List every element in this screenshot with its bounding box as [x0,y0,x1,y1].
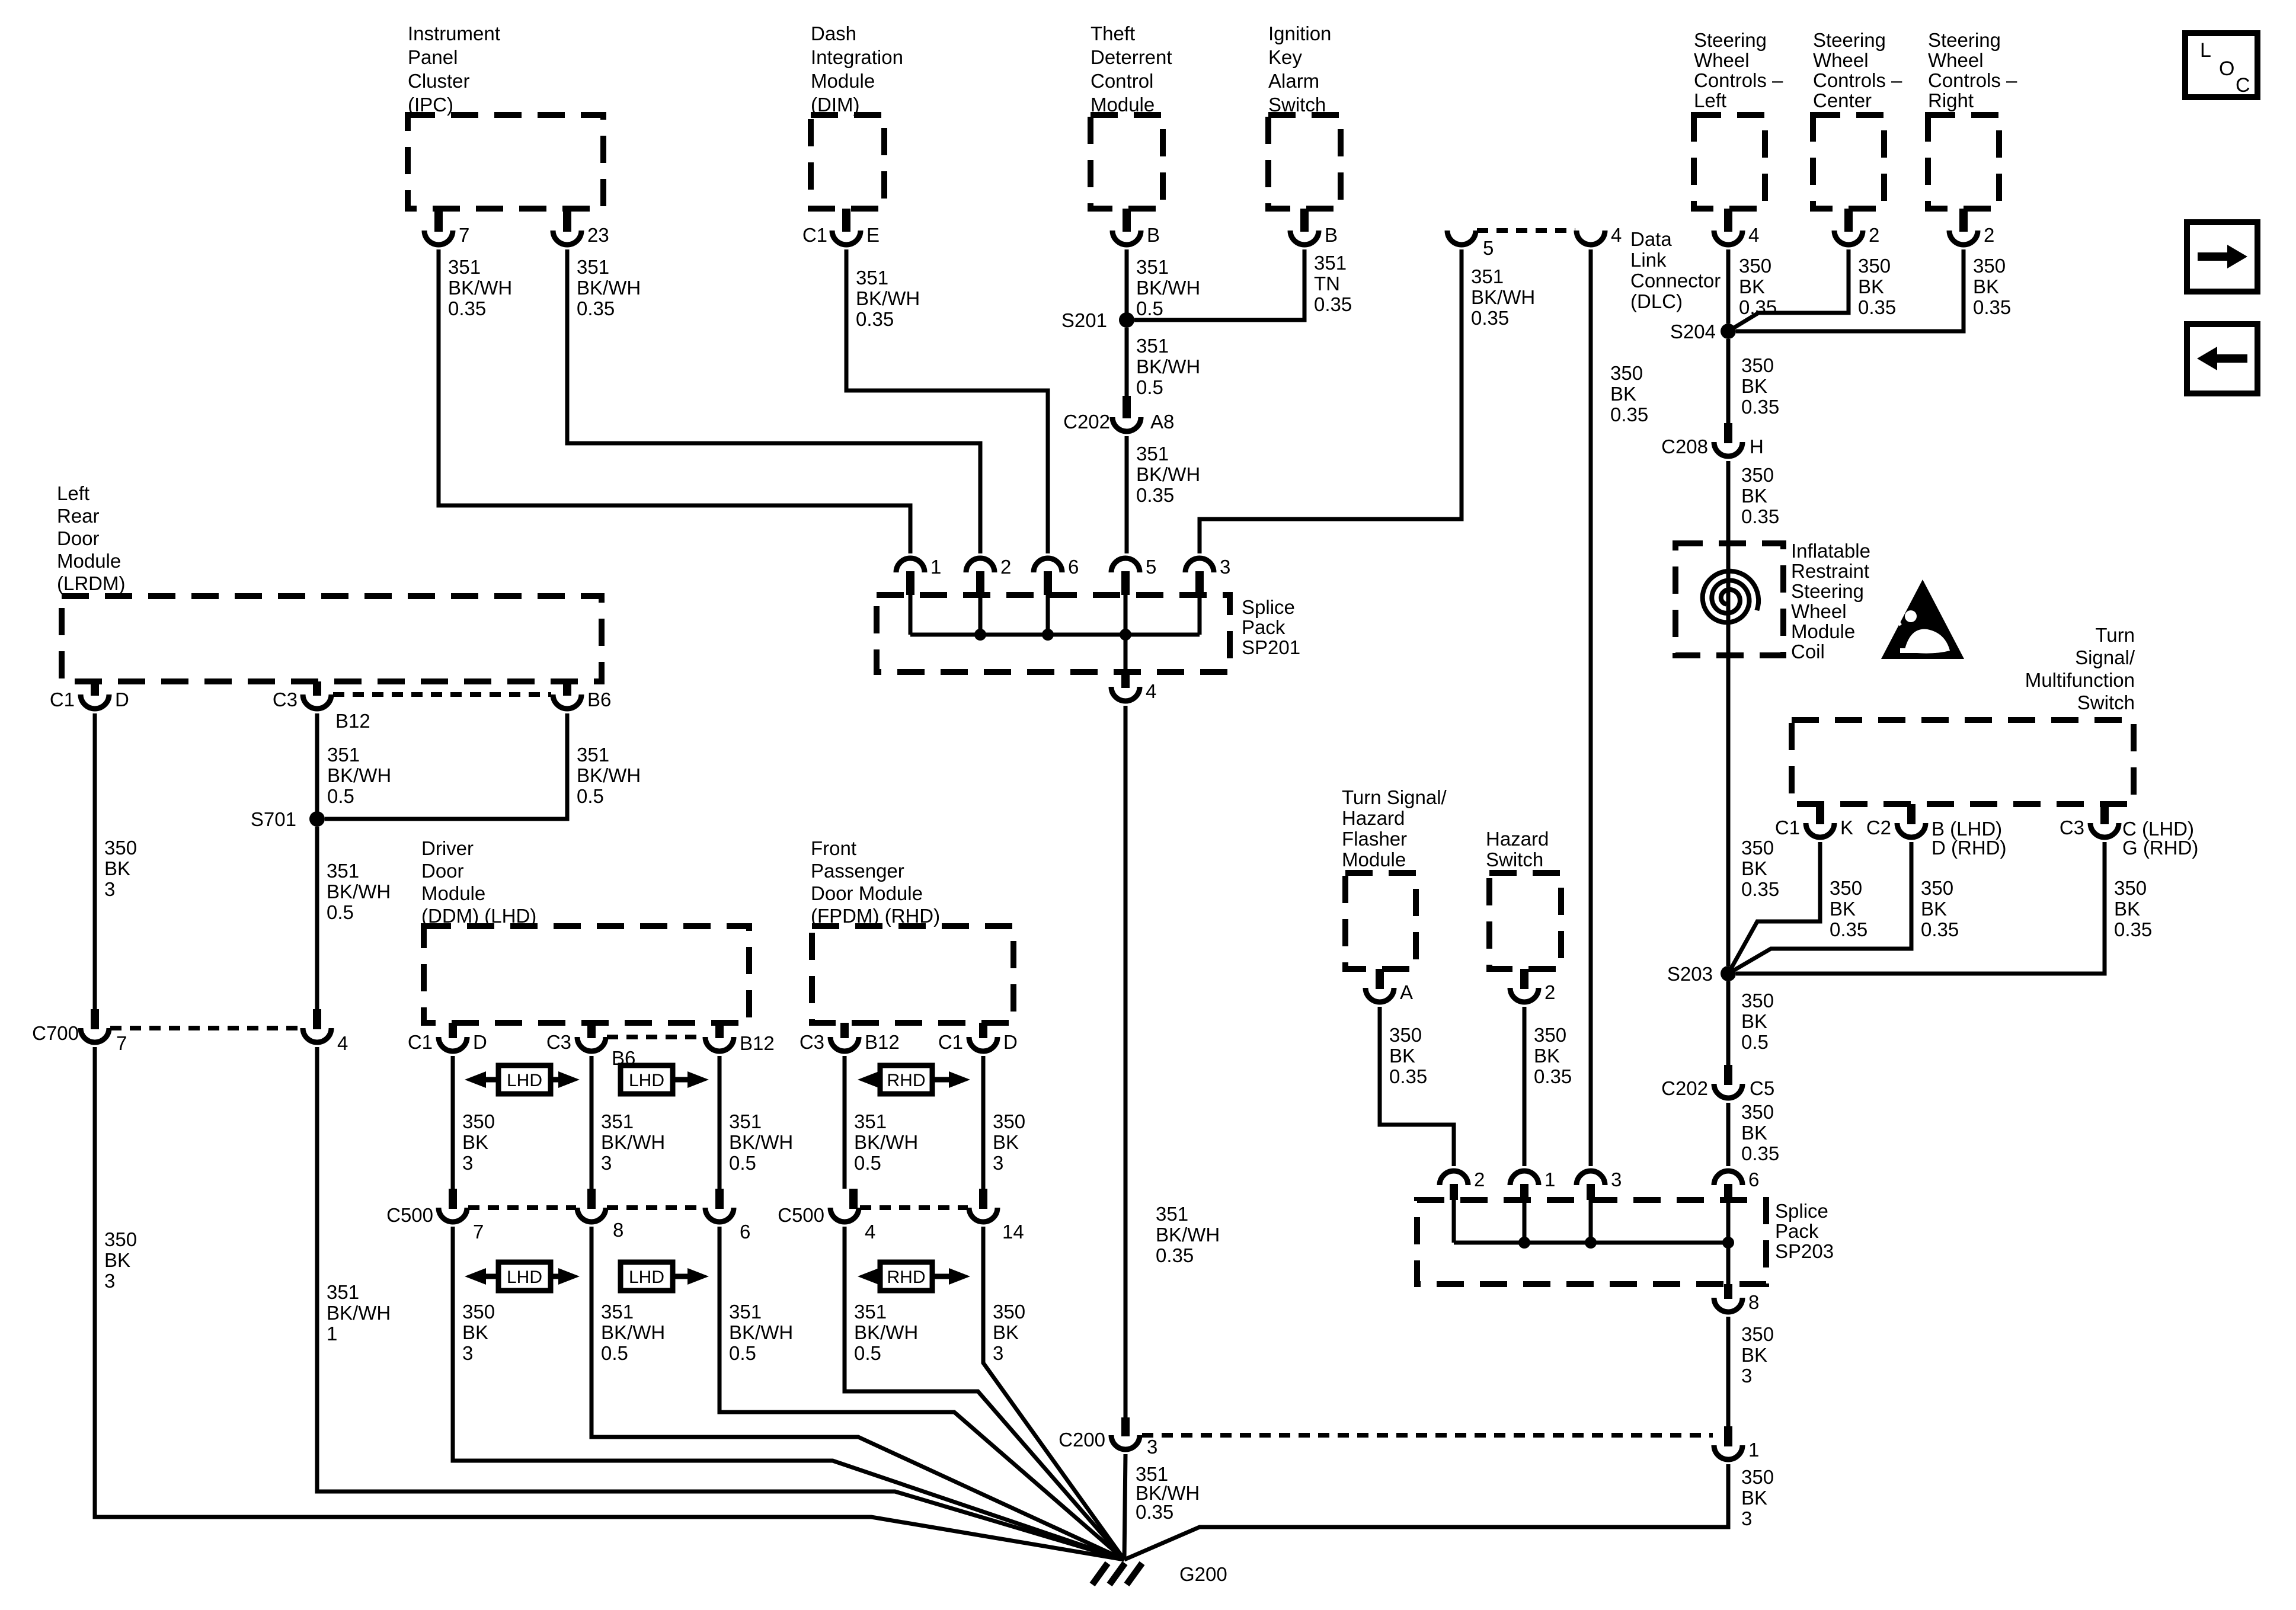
svg-text:5: 5 [1146,556,1156,578]
wire DLC pin5 to SP201 pin3 [1200,249,1462,553]
pin stub LRDM C3 [313,681,321,696]
splice SP203 inner wire pin6-8 [1726,1200,1731,1284]
connector C208 H [1714,442,1742,456]
dotted connector line DDM C3-B12 [607,1035,704,1039]
pin stub DDM x998 [587,1023,596,1038]
variant arrow RHD row2 [880,1262,932,1291]
svg-text:C3: C3 [546,1031,571,1053]
svg-text:S701: S701 [251,808,296,830]
pin stub SP201 1 [906,571,914,595]
svg-text:C: C [2236,74,2250,97]
splice SP203 inner wire pin3 [1589,1200,1593,1243]
svg-text:E: E [866,224,880,246]
wire C200 to G200 [1124,1454,1125,1560]
module box TDCM [1091,115,1163,209]
svg-text:B12: B12 [740,1032,775,1054]
svg-text:RHD: RHD [887,1071,926,1090]
splice SP201 inner wire pin6 [1046,595,1050,635]
legend left-arrow box [2187,324,2257,393]
wire IPC pin23 to SP201 pin2 [567,249,980,553]
connector cup SP203 pin 8 [1714,1298,1742,1312]
connector cup LRDM B6 [553,694,581,709]
wire C700 pin4 to G200 [317,1047,1124,1560]
svg-text:O: O [2219,57,2234,80]
connector cup TSMF C2 B [1897,823,1926,837]
module box TSHF [1345,873,1416,969]
svg-text:LHD: LHD [507,1071,542,1090]
splice SP201 bus junction A [974,629,986,641]
legend right-arrow box [2187,222,2257,292]
pin stub TSMF C3C [2100,804,2109,824]
pin stub IKAS B [1300,209,1309,232]
pin stub TSHF A [1376,969,1384,989]
connector C202 C5 [1714,1084,1742,1098]
connector cup TSMF C3 C [2090,823,2119,837]
wire DDM C1 D to C500 pin7 [451,1056,455,1189]
splice SP201 inner wire pin5-4 [1124,595,1128,672]
wire IKAS B to S201 [1134,249,1304,320]
svg-text:1: 1 [930,556,941,578]
svg-text:B12: B12 [865,1031,900,1053]
connector cup C700 pin 4 [303,1028,331,1042]
pin stub SP203 1 [1520,1184,1528,1200]
splice S204 [1721,324,1736,339]
wire pin1 to G200 [1124,1464,1728,1560]
module box DIM [811,115,884,209]
wire C500 pin7 to G200 [453,1227,1124,1560]
pin stub SWCR 2 [1959,209,1968,232]
wire Hazard 2 to SP203 pin1 [1523,1007,1527,1166]
svg-text:C2: C2 [1866,817,1891,838]
wire C202 A8 to SP201 pin5 [1125,436,1129,553]
connector cup SWC Right pin 2 [1949,231,1978,245]
svg-text:2: 2 [1000,556,1011,578]
warning triangle airbag icon [1881,580,1964,659]
connector cup DIM C1 E [832,231,861,245]
connector cup C500 pin 4 [830,1208,859,1222]
connector cup SP201 pin 4 [1111,687,1140,701]
pin stub HAZ 2 [1520,969,1528,989]
svg-text:1: 1 [1544,1169,1555,1190]
pin stub C700 7 [91,1009,99,1029]
pin stub LRDM B6 [563,681,571,696]
pin stub C500 x1214 [715,1189,724,1209]
pin stub C208 H [1724,423,1732,443]
svg-text:C200: C200 [1059,1429,1105,1451]
splice S701 [309,811,325,827]
wire C500 pin8 to G200 [591,1227,1124,1560]
svg-text:LHD: LHD [507,1267,542,1287]
splice SP201 bus junction C [1120,629,1131,641]
wire C500 pin14 to G200 [983,1227,1124,1560]
connector cup DLC pin 5 [1447,231,1476,245]
connector cup TSMF C1 K [1806,823,1834,837]
svg-text:C1: C1 [408,1031,433,1053]
splice S201 [1119,312,1134,328]
pin stub FPDM x1659 [979,1023,987,1038]
svg-text:C202: C202 [1063,411,1110,433]
connector cup C700 pin 7 [81,1028,109,1042]
wire DLC pin4 to SP203 pin3 [1589,249,1593,1166]
svg-text:7: 7 [459,224,469,246]
wire C700 pin7 to G200 [95,1047,1124,1560]
svg-text:3: 3 [1220,556,1230,578]
dotted connector line C500 8-6 [607,1205,704,1210]
pin stub LRDM C1D [91,681,99,696]
pin stub C202 C5 [1724,1065,1732,1085]
splice SP201 inner wire pin2 [978,595,983,635]
svg-text:6: 6 [1068,556,1079,578]
connector cup SP201 pin 1 [896,558,925,572]
connector cup C500 pin 14 [969,1208,997,1222]
wire TSHF A to SP203 pin2 [1380,1007,1454,1166]
connector cup SP201 pin 2 [966,558,994,572]
dotted connector line LRDM C3-B6 [333,692,551,697]
module box SWC Right [1928,115,1999,209]
connector cup C500 pin 7 [439,1208,467,1222]
pin stub SWCL 4 [1724,209,1732,232]
module box FPDM [812,926,1013,1023]
svg-text:C700: C700 [32,1022,79,1044]
svg-text:C1: C1 [802,224,827,246]
svg-text:6: 6 [740,1221,750,1243]
wire TSMF C2 B to S203 [1728,842,1911,974]
pin stub TSMF C1K [1816,804,1824,824]
module box TSMF switch [1792,720,2134,804]
connector cup SP203 pin 1 [1510,1171,1539,1185]
pin stub SP203 6 [1724,1184,1732,1200]
connector cup TSHF pin A [1366,988,1394,1002]
pin stub DDM x1214 [715,1023,724,1038]
svg-text:2: 2 [1474,1169,1485,1190]
svg-text:4: 4 [337,1032,348,1054]
svg-text:S201: S201 [1061,309,1107,331]
svg-text:S204: S204 [1670,321,1716,343]
svg-text:B (LHD)D (RHD): B (LHD)D (RHD) [1932,818,2006,859]
connector cup TDCM pin B [1112,231,1141,245]
module box SWC Left [1694,115,1765,209]
connector cup SP203 pin 3 [1576,1171,1605,1185]
dotted connector line C700 [110,1026,302,1030]
svg-text:2: 2 [1869,224,1879,246]
pin stub C700 4 [313,1009,321,1029]
svg-text:C3: C3 [273,689,298,710]
connector C202 A8 [1112,417,1141,431]
svg-text:A8: A8 [1150,411,1174,433]
wire FPDM C3 B12 to C500 pin4 [843,1056,847,1189]
svg-text:3: 3 [1147,1436,1157,1458]
svg-text:D: D [473,1031,487,1053]
connector cup IPC pin 23 [553,231,581,245]
svg-text:4: 4 [1611,224,1622,246]
svg-text:3: 3 [1611,1169,1622,1190]
wire S203 to C202 C5 [1726,981,1731,1065]
module box SWC Center [1813,115,1884,209]
ground G200 symbol [1092,1563,1142,1585]
wire S201 to C202 A8 [1125,328,1129,396]
pin stub SP201 4 [1121,672,1130,688]
pin stub C200 3 [1121,1417,1130,1436]
svg-text:4: 4 [1748,224,1759,246]
pin stub TSMF C2B [1907,804,1916,824]
wire SWC Right to S204 [1736,249,1964,331]
svg-text:4: 4 [865,1221,875,1243]
connector cup SP203 pin 2 [1440,1171,1468,1185]
splice S203 [1721,966,1736,981]
connector cup C500 pin 8 [577,1208,606,1222]
wire DDM B12 to C500 pin6 [718,1056,722,1189]
svg-text:2: 2 [1544,981,1555,1003]
svg-text:LHD: LHD [629,1071,664,1090]
connector cup SWC Center pin 2 [1834,231,1863,245]
wire TSMF C3 C to S203 [1736,842,2105,974]
wire C208 to S203 through coil [1726,461,1731,966]
variant arrow LHD row1 right [621,1065,673,1094]
dotted connector line C200 to pin1 [1142,1433,1713,1438]
svg-text:1: 1 [1748,1439,1759,1461]
pin stub TDCM B [1123,209,1131,232]
svg-text:LHD: LHD [629,1267,664,1287]
module box Hazard Switch [1489,873,1561,969]
splice pack SP201 box [877,595,1230,672]
connector cup DDM C1 D [439,1037,467,1051]
connector cup Hazard pin 2 [1510,988,1539,1002]
svg-text:4: 4 [1146,680,1156,702]
svg-text:C202: C202 [1661,1077,1708,1099]
svg-text:C208: C208 [1661,436,1708,457]
connector cup SWC Left pin 4 [1714,231,1742,245]
coil spiral symbol [1703,571,1758,623]
connector cup SP201 pin 3 [1185,558,1214,572]
pin stub SP201 3 [1195,571,1204,595]
connector cup LRDM C1 D [81,694,109,709]
svg-text:8: 8 [1748,1291,1759,1313]
svg-text:14: 14 [1002,1221,1024,1243]
pin stub SWCC 2 [1844,209,1853,232]
pin stub SP201 5 [1121,571,1130,595]
svg-text:6: 6 [1748,1169,1759,1190]
svg-text:2: 2 [1984,224,1994,246]
pin stub SP203 2 [1450,1184,1458,1200]
svg-text:L: L [2200,39,2211,62]
wire TDCM B to S201 [1125,249,1129,320]
variant arrow RHD row1 [880,1065,932,1094]
pin stub C202 A8 [1123,396,1131,418]
connector cup FPDM C3 B12 [830,1037,859,1051]
connector cup C500 pin 6 [705,1208,734,1222]
svg-text:B12: B12 [335,710,370,732]
pin stub SP203 3 [1587,1184,1595,1200]
svg-text:B: B [1147,224,1160,246]
svg-text:8: 8 [613,1219,623,1241]
dotted connector line C500 4-14 [860,1205,968,1210]
variant arrow LHD row2 left [498,1262,551,1291]
svg-text:H: H [1750,436,1764,457]
module box Inflatable Restraint Coil [1675,543,1783,655]
splice SP203 inner wire pin1 [1523,1200,1527,1243]
pin stub C500 x1440 [849,1189,858,1209]
svg-text:C (LHD)G (RHD): C (LHD)G (RHD) [2122,818,2198,859]
svg-text:B: B [1325,224,1338,246]
connector cup pin 1 bottom [1714,1445,1742,1459]
pin stub IPC 7 [434,209,443,232]
pin stub IPC 23 [563,209,571,232]
connector cup DLC pin 4 [1576,231,1605,245]
wire SWC Left to S204 [1726,249,1731,324]
svg-text:C500: C500 [778,1204,824,1226]
connector C200 pin 3 [1111,1435,1140,1449]
wire DIM E to SP201 pin6 [846,249,1048,553]
svg-text:7: 7 [116,1032,127,1054]
variant arrow LHD row1 left [498,1065,551,1094]
wire S701 to C700 pin4 [315,827,319,1009]
svg-text:C1: C1 [938,1031,963,1053]
wire SP203 pin8 down [1726,1317,1731,1426]
splice SP201 inner wire pin1 [909,595,913,635]
svg-text:5: 5 [1483,237,1494,259]
wire DDM C3 B6 to C500 pin8 [590,1056,594,1189]
dotted connector line C500 7-8 [468,1205,576,1210]
module box LRDM [62,596,602,681]
pin stub DIM E [842,209,850,232]
connector cup IKAS pin B [1290,231,1319,245]
splice SP203 bus junction B [1585,1237,1597,1249]
pin stub SP201 2 [976,571,984,595]
wire FPDM C1 D to C500 pin14 [981,1056,986,1189]
wire TSMF C1 K to S203 [1728,842,1820,974]
wire LRDM C1 D to C700 pin7 [93,713,97,1009]
wire C500 pin4 to G200 [845,1227,1124,1560]
svg-text:D: D [1003,1031,1018,1053]
connector cup SP203 pin 6 [1714,1171,1742,1185]
pin stub C500 x764 [449,1189,457,1209]
variant arrow LHD row2 right [621,1262,673,1291]
wire SWC Center to S204 [1728,249,1849,331]
connector cup DDM B12 [705,1037,734,1051]
pin stub pin1 bottom [1724,1426,1732,1446]
svg-text:A: A [1400,981,1413,1003]
splice SP201 bus junction B [1042,629,1054,641]
svg-text:C1: C1 [50,689,75,710]
connector cup SP201 pin 6 [1034,558,1062,572]
pin stub FPDM x1425 [840,1023,849,1038]
connector cup LRDM C3 B12 [303,694,331,709]
splice SP201 bus [910,633,1200,637]
svg-text:C500: C500 [386,1204,433,1226]
wire SP201 pin4 to C200 [1124,706,1128,1417]
pin stub SP203 8 [1724,1284,1732,1299]
wire LRDM C3 B12 to S701 [315,713,319,819]
svg-text:B6: B6 [587,689,611,710]
svg-text:23: 23 [587,224,609,246]
svg-text:C1: C1 [1775,817,1800,838]
connector cup DDM C3 B6 [577,1037,606,1051]
legend LOC box [2185,33,2257,97]
wire LRDM B6 to S701 [325,713,567,819]
splice SP203 bus junction C [1722,1237,1734,1249]
module box IPC [408,115,603,209]
connector cup FPDM C1 D [969,1037,997,1051]
svg-text:C5: C5 [1750,1077,1774,1099]
wire IPC pin7 to SP201 pin1 [439,249,910,553]
splice pack SP203 box [1417,1200,1766,1284]
splice SP203 inner wire pin2 [1452,1200,1456,1243]
svg-text:S203: S203 [1667,963,1713,985]
connector cup IPC pin 7 [424,231,453,245]
pin stub DDM x764 [449,1023,457,1038]
svg-text:HazardSwitch: HazardSwitch [1486,828,1549,870]
svg-text:G200: G200 [1179,1563,1227,1585]
module box IKAS [1268,115,1341,209]
wire S204 to C208 [1726,339,1731,423]
svg-text:D: D [115,689,129,710]
module box DDM [424,926,749,1023]
wire C500 pin6 to G200 [720,1227,1124,1560]
splice SP203 bus junction A [1518,1237,1530,1249]
splice SP203 bus [1454,1241,1728,1245]
pin stub C500 x1659 [979,1189,987,1209]
wire C202 C5 to SP203 pin6 [1726,1103,1731,1166]
svg-text:C3: C3 [800,1031,824,1053]
pin stub C500 x998 [587,1189,596,1209]
svg-text:K: K [1840,817,1853,838]
connector cup SP201 pin 5 [1111,558,1140,572]
svg-text:RHD: RHD [887,1267,926,1287]
pin stub SP201 6 [1044,571,1052,595]
svg-text:C3: C3 [2060,817,2084,838]
splice SP201 inner wire pin3 [1198,595,1202,635]
dotted connector line DLC [1477,228,1575,233]
svg-text:7: 7 [473,1221,484,1243]
